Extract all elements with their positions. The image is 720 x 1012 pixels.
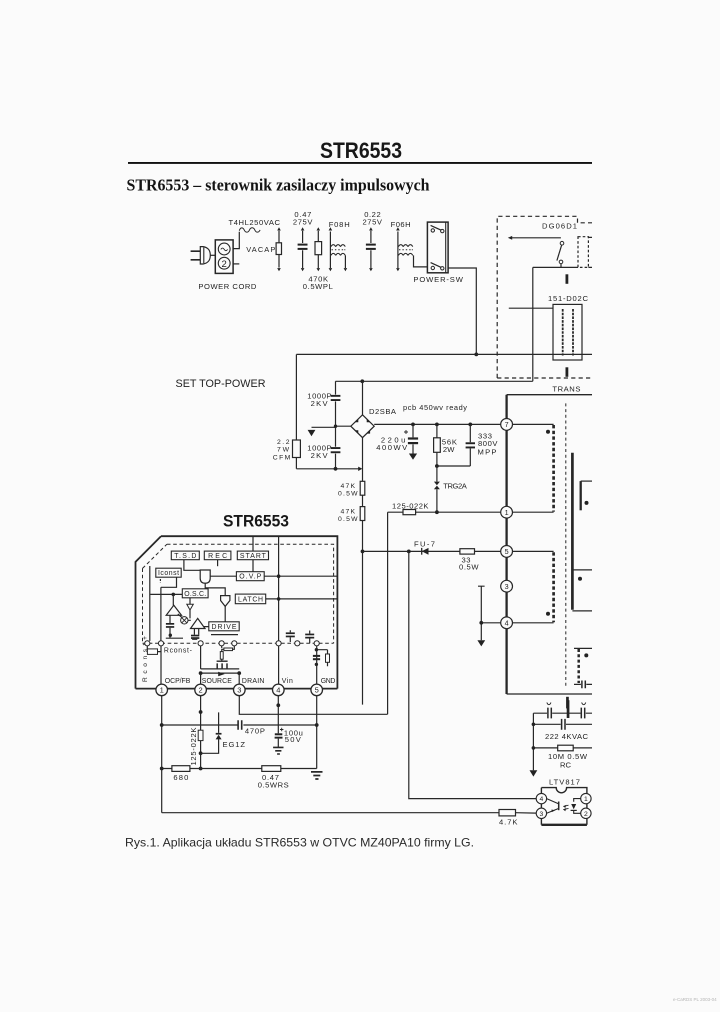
svg-text:4: 4 bbox=[505, 619, 509, 628]
svg-text:4.7K: 4.7K bbox=[499, 818, 518, 827]
svg-text:VACAP: VACAP bbox=[246, 245, 275, 254]
svg-text:275V: 275V bbox=[293, 217, 313, 226]
svg-text:REC: REC bbox=[208, 553, 227, 560]
svg-text:275V: 275V bbox=[363, 217, 383, 226]
svg-text:2KV: 2KV bbox=[311, 399, 329, 408]
svg-text:4: 4 bbox=[276, 686, 280, 695]
svg-text:1: 1 bbox=[584, 796, 588, 803]
svg-text:Rys.1. Aplikacja układu STR655: Rys.1. Aplikacja układu STR6553 w OTVC M… bbox=[125, 835, 474, 849]
svg-text:T4HL250VAC: T4HL250VAC bbox=[229, 218, 281, 227]
svg-text:RC: RC bbox=[560, 760, 572, 769]
svg-text:7W: 7W bbox=[277, 447, 290, 454]
svg-text:TRANS: TRANS bbox=[552, 385, 580, 394]
svg-text:3: 3 bbox=[505, 582, 509, 591]
svg-text:680: 680 bbox=[173, 773, 188, 782]
svg-text:151-D02C: 151-D02C bbox=[548, 294, 589, 303]
svg-text:O.V.P: O.V.P bbox=[239, 574, 261, 581]
svg-text:5: 5 bbox=[505, 547, 509, 556]
svg-text:222 4KVAC: 222 4KVAC bbox=[545, 732, 589, 741]
svg-text:LTV817: LTV817 bbox=[549, 778, 580, 787]
svg-text:D2SBA: D2SBA bbox=[369, 407, 397, 416]
svg-text:1: 1 bbox=[505, 508, 509, 517]
svg-text:DRIVE: DRIVE bbox=[212, 624, 237, 631]
svg-text:DRAIN: DRAIN bbox=[242, 678, 265, 685]
svg-text:2KV: 2KV bbox=[311, 451, 329, 460]
svg-text:CFM: CFM bbox=[273, 455, 291, 462]
svg-text:0.5WRS: 0.5WRS bbox=[258, 781, 289, 790]
svg-text:DG06D1: DG06D1 bbox=[542, 222, 577, 231]
svg-text:SET TOP-POWER: SET TOP-POWER bbox=[176, 378, 266, 390]
svg-text:SOURCE: SOURCE bbox=[202, 678, 232, 685]
svg-text:TRG2A: TRG2A bbox=[443, 482, 467, 491]
svg-text:e-CaRDS PL 2003-04: e-CaRDS PL 2003-04 bbox=[673, 997, 717, 1002]
svg-text:47K: 47K bbox=[341, 483, 356, 490]
svg-text:POWER-SW: POWER-SW bbox=[413, 275, 463, 284]
svg-text:FU-7: FU-7 bbox=[414, 540, 435, 549]
svg-text:50V: 50V bbox=[285, 735, 302, 744]
svg-text:OCP/FB: OCP/FB bbox=[165, 678, 191, 685]
svg-text:LATCH: LATCH bbox=[238, 597, 263, 604]
svg-text:2W: 2W bbox=[443, 445, 455, 454]
svg-text:400WV: 400WV bbox=[376, 443, 408, 452]
svg-text:5: 5 bbox=[315, 686, 319, 695]
svg-text:2: 2 bbox=[199, 686, 203, 695]
svg-text:F08H: F08H bbox=[329, 220, 350, 229]
svg-text:GND: GND bbox=[321, 678, 336, 685]
svg-text:pcb 450wv ready: pcb 450wv ready bbox=[403, 403, 467, 412]
svg-text:POWER CORD: POWER CORD bbox=[198, 282, 257, 291]
svg-text:2: 2 bbox=[584, 811, 588, 818]
svg-text:3: 3 bbox=[237, 686, 241, 695]
svg-text:2.2: 2.2 bbox=[277, 439, 290, 446]
svg-text:125-022K: 125-022K bbox=[189, 728, 198, 766]
svg-text:1: 1 bbox=[160, 686, 164, 695]
svg-text:STR6553 – sterownik zasilaczy: STR6553 – sterownik zasilaczy impulsowyc… bbox=[127, 175, 430, 194]
svg-text:EG1Z: EG1Z bbox=[223, 740, 246, 749]
svg-text:F06H: F06H bbox=[391, 220, 411, 229]
svg-text:3: 3 bbox=[540, 811, 544, 818]
svg-text:O.S.C.: O.S.C. bbox=[184, 591, 206, 598]
svg-text:4: 4 bbox=[540, 796, 544, 803]
svg-text:0.5W: 0.5W bbox=[338, 516, 358, 523]
svg-text:47K: 47K bbox=[341, 509, 356, 516]
svg-text:T.S.D: T.S.D bbox=[174, 553, 196, 560]
svg-text:2: 2 bbox=[222, 259, 227, 270]
svg-text:470P: 470P bbox=[245, 727, 265, 736]
svg-text:MPP: MPP bbox=[478, 447, 497, 456]
svg-text:STR6553: STR6553 bbox=[223, 513, 289, 531]
svg-text:0.5W: 0.5W bbox=[338, 490, 358, 497]
svg-text:START: START bbox=[240, 553, 267, 560]
svg-text:7: 7 bbox=[505, 420, 509, 429]
svg-text:0.5W: 0.5W bbox=[459, 563, 479, 572]
svg-text:0.5WPL: 0.5WPL bbox=[303, 282, 333, 291]
svg-text:STR6553: STR6553 bbox=[320, 138, 402, 163]
svg-text:Iconst: Iconst bbox=[158, 570, 179, 577]
svg-text:Rconst-: Rconst- bbox=[164, 648, 192, 655]
svg-text:Vin: Vin bbox=[282, 678, 293, 685]
